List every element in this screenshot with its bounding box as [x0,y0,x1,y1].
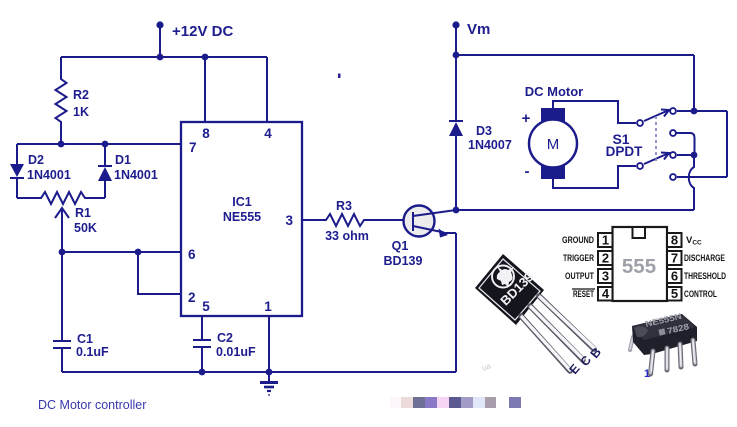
body silhouette [632,314,697,355]
wire Q1 emitter drop [455,233,457,372]
resistor R3 [302,214,404,226]
BD139 legs [521,296,594,371]
top face [632,314,695,340]
svg-text:R2: R2 [73,88,89,102]
svg-text:BD139: BD139 [384,254,423,268]
svg-text:C2: C2 [217,331,233,345]
transistor Q1 [404,206,435,237]
svg-text:555: 555 [622,255,656,278]
wire throw4 to right bus [677,176,727,178]
color strip [390,397,521,408]
555 pinout notch [633,227,646,238]
svg-text:8: 8 [671,233,678,248]
svg-text:C1: C1 [77,332,93,346]
svg-text:4: 4 [602,286,610,301]
wire right drop to switch [693,55,695,111]
pin box 6 [667,269,682,283]
wire motor top lead [553,101,636,123]
svg-text:4: 4 [264,126,272,141]
wire pin2 branch [138,252,181,294]
diode D1 [104,144,106,166]
svg-text:DISCHARGE: DISCHARGE [684,253,725,264]
op-amp/timer IC1 body [181,122,302,316]
wire switch common with hop [689,155,694,210]
svg-text:GROUND: GROUND [562,235,594,246]
capacitor C2 [201,316,203,340]
svg-text:TRIGGER: TRIGGER [563,253,594,264]
pin box 4 [598,287,613,301]
wire bottom rail [62,371,456,373]
pin box 8 [667,233,682,247]
wire supply stub [159,25,161,57]
svg-text:R1: R1 [75,206,91,220]
svg-text:R3: R3 [336,199,352,213]
svg-text:DPDT: DPDT [606,144,644,159]
node ground junction [266,369,273,376]
wire Vm rail [456,54,694,56]
label S 7828 [658,328,665,335]
svg-text:3: 3 [285,213,293,228]
svg-text:1: 1 [264,299,272,314]
node throw1 junction [691,108,698,115]
svg-text:CONTROL: CONTROL [684,289,717,300]
potentiometer R1 wiper arrow [55,208,69,218]
svg-text:2: 2 [188,290,196,305]
svg-text:1N4001: 1N4001 [114,168,158,182]
svg-text:1: 1 [644,368,650,380]
svg-text:OUTPUT: OUTPUT [565,271,594,282]
+12V DC supply terminal dot [156,21,163,28]
switch S1 pole contacts [637,120,643,126]
wire Vm stub [455,25,457,57]
svg-text:1K: 1K [73,105,89,119]
resistor R1 (potentiometer track) [17,192,105,204]
pin box 2 [598,251,613,265]
svg-text:D3: D3 [476,124,492,138]
wire right bus vertical [726,111,728,177]
node D1 top junction [102,141,109,148]
node collector junction [453,207,460,214]
node Vm rail junction [453,52,460,59]
svg-text:+12V DC: +12V DC [172,23,233,40]
svg-text:2: 2 [602,251,609,266]
svg-text:8: 8 [202,126,210,141]
svg-text:1N4001: 1N4001 [27,168,71,182]
pin box 7 [667,251,682,265]
switch S1 mechanical link [655,116,657,161]
node switch common junction [691,152,698,159]
speck artifact right of rail [338,74,341,79]
pin box 3 [598,269,613,283]
svg-text:IC1: IC1 [232,195,252,209]
diode D3 [455,55,457,121]
wire pin8 drop [204,57,206,122]
svg-text:0.01uF: 0.01uF [216,345,256,359]
svg-text:Vm: Vm [467,21,490,38]
svg-text:6: 6 [671,269,678,284]
svg-text:D2: D2 [28,153,44,167]
Vm terminal dot [452,21,459,28]
switch throw contacts [670,108,676,114]
wire throw3 link [677,154,694,156]
svg-text:-: - [525,163,530,180]
end notch [634,326,648,337]
wire pin1 drop [268,316,270,372]
BD139 package photo [475,254,604,377]
svg-text:RESET: RESET [573,289,594,300]
switch S1 arm 2 [644,153,669,164]
capacitor C1 [61,252,63,341]
front legs [651,340,696,374]
svg-text:NE555: NE555 [223,210,261,224]
wire collector rail [456,209,694,211]
svg-text:1: 1 [602,233,609,248]
wire pin6 row [62,251,181,253]
DIP-8 package photo [630,311,697,380]
switch S1 arm 1 [644,110,669,121]
pin box 5 [667,287,682,301]
svg-text:+: + [522,110,531,127]
motor M [541,108,565,121]
resistor R2 [56,57,67,144]
svg-text:50K: 50K [74,221,97,235]
svg-text:Q1: Q1 [392,239,409,253]
svg-text:D1: D1 [115,153,131,167]
wire motor bottom lead [553,166,636,188]
svg-text:DC Motor: DC Motor [525,84,584,99]
wire throw2 link [676,133,695,155]
ground [260,372,278,395]
svg-text:5: 5 [671,286,678,301]
555 pinout body [613,227,668,301]
wire pin4 drop [266,57,268,122]
svg-text:5: 5 [202,299,210,314]
node C2 bottom junction [199,369,206,376]
node wiper junction [59,249,66,256]
wire pin7 row [17,143,181,145]
svg-text:7: 7 [189,140,197,155]
svg-text:0.1uF: 0.1uF [76,345,109,359]
node rail-supply junction [157,54,164,61]
wire top rail [61,56,267,58]
node R2 bottom junction [58,141,65,148]
wire throw1 to right bus [677,110,727,112]
svg-text:1N4007: 1N4007 [468,138,512,152]
node pin2 branch junction [135,249,142,256]
svg-text:3: 3 [602,269,609,284]
svg-text:33 ohm: 33 ohm [325,229,369,243]
svg-text:DC Motor controller: DC Motor controller [38,398,146,412]
svg-text:THRESHOLD: THRESHOLD [684,271,726,282]
diode D2 [16,144,18,164]
node rail-pin8 junction [202,54,209,61]
back leg [630,337,633,350]
pin box 1 [598,233,613,247]
svg-text:7: 7 [671,251,678,266]
svg-text:6: 6 [188,247,196,262]
svg-text:M: M [547,136,560,153]
